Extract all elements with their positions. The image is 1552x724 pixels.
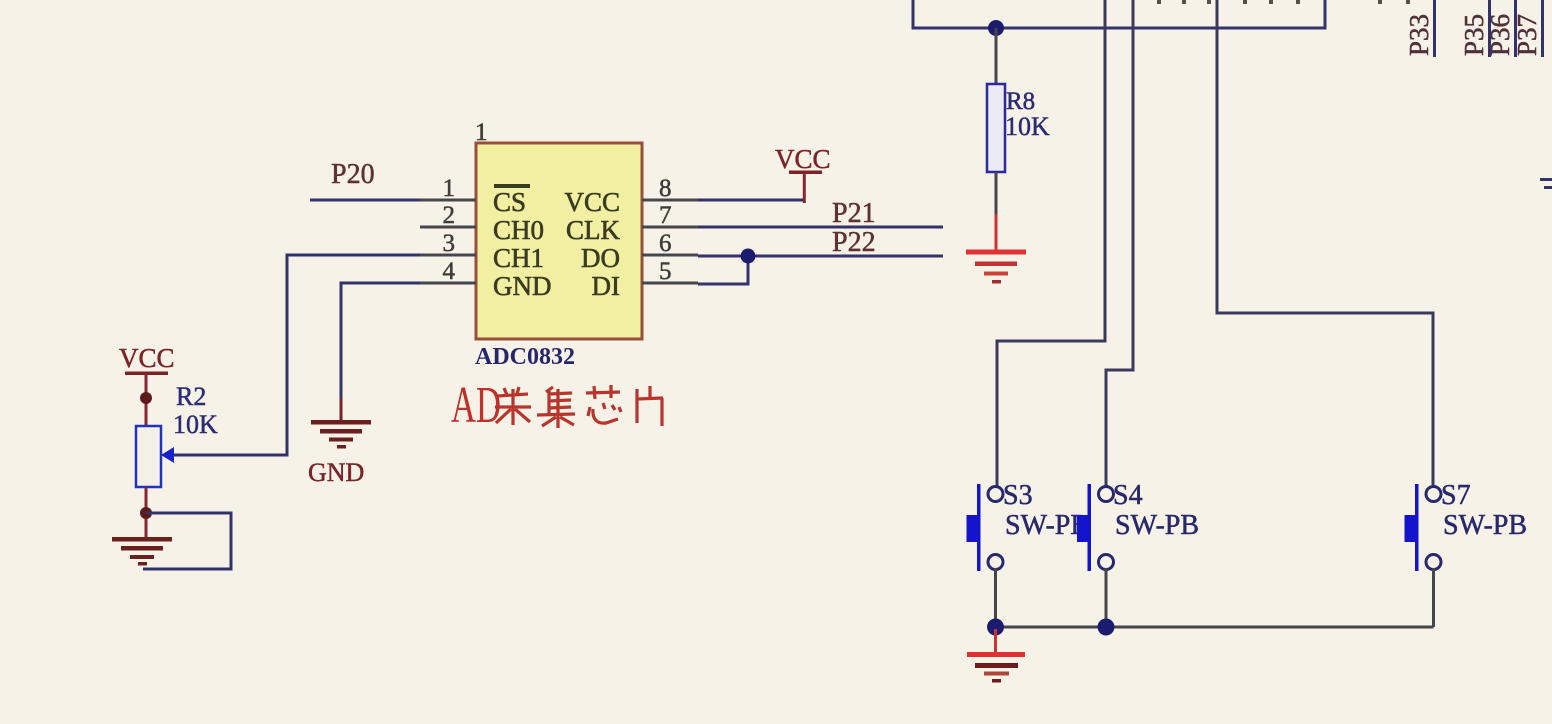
wire top bus horizontal [912, 27, 1327, 30]
pin 3 stub CH1 [420, 230, 476, 257]
svg-text:P22: P22 [832, 227, 876, 258]
junction R2 bottom [140, 507, 152, 519]
ground GND (chip pin 4) [308, 398, 371, 487]
wire bottom bus [996, 626, 1434, 629]
wire S4 net vertical from top [1106, 0, 1133, 490]
svg-text:1: 1 [443, 175, 456, 202]
svg-text:P20: P20 [331, 159, 375, 190]
wire net CH1 to potentiometer wiper [170, 255, 420, 455]
pin 7 stub CLK [642, 202, 698, 229]
svg-text:S7: S7 [1441, 480, 1471, 511]
switch S7 [1405, 480, 1528, 571]
wire net P20 to pin 1 [310, 159, 420, 202]
junction on DO/DI net [741, 249, 756, 264]
svg-text:SW-PB: SW-PB [1443, 510, 1527, 541]
svg-text:6: 6 [659, 230, 672, 257]
wire pin 5 up to DO net [698, 256, 748, 284]
ground below bottom bus (red) [967, 629, 1025, 683]
svg-text:CH0: CH0 [493, 215, 544, 245]
ground below R2 [112, 537, 172, 566]
svg-text:CS: CS [493, 187, 526, 217]
svg-text:R2: R2 [176, 382, 206, 411]
wire S7 net from top [1217, 0, 1433, 490]
op-amp U1 ADC0832 chip body [476, 143, 642, 339]
svg-text:3: 3 [443, 230, 456, 257]
svg-text:SW-PB: SW-PB [1115, 510, 1199, 541]
pin 5 stub DI [642, 258, 698, 285]
node P37 pin stub [1512, 0, 1544, 57]
svg-text:GND: GND [493, 271, 552, 301]
wire top bus vertical left [912, 0, 915, 29]
wire R8 top lead [995, 28, 998, 84]
caption AD acquisition chip (red) [451, 377, 501, 434]
svg-text:VCC: VCC [564, 187, 620, 217]
pin 2 stub CH0 [420, 202, 476, 229]
svg-text:1: 1 [475, 119, 488, 146]
switch S3 [967, 480, 1090, 571]
svg-text:P21: P21 [832, 198, 876, 229]
hanzi ji (sketch) [537, 387, 575, 428]
svg-text:AD: AD [451, 377, 501, 434]
svg-text:P36: P36 [1485, 14, 1515, 56]
wire net P22 from pin 6 [698, 227, 943, 258]
wire loop from R2 bottom [143, 513, 231, 569]
right edge cut mark [1540, 178, 1552, 189]
svg-text:CH1: CH1 [493, 243, 544, 273]
pin 1 stub CS [420, 175, 476, 202]
svg-text:S3: S3 [1003, 480, 1033, 511]
node P35 pin stub [1459, 0, 1491, 57]
pin 6 stub DO [642, 230, 698, 257]
svg-text:5: 5 [659, 258, 672, 285]
wire S3 bottom lead [994, 568, 997, 627]
junction bottom bus S4 [1098, 619, 1115, 636]
junction top bus to R8 [988, 20, 1004, 36]
wire S3 net vertical from top [997, 0, 1105, 490]
wire R2 bottom lead [145, 487, 148, 537]
wire net P21 from pin 7 [698, 198, 943, 229]
wire top bus vertical right [1324, 0, 1327, 29]
power VCC (above R2) [119, 343, 175, 426]
svg-text:VCC: VCC [775, 144, 831, 174]
svg-text:4: 4 [443, 258, 456, 285]
svg-text:10K: 10K [1005, 112, 1050, 141]
svg-text:7: 7 [659, 202, 672, 229]
wire R8 bottom lead [995, 172, 998, 252]
svg-text:DI: DI [592, 271, 621, 301]
wire pin 4 to ground [341, 283, 420, 400]
svg-text:S4: S4 [1113, 480, 1143, 511]
power VCC (right of chip) [775, 144, 831, 203]
node P33 pin stub [1404, 0, 1436, 57]
pin 4 stub GND [420, 258, 476, 285]
chip name label ADC0832 [475, 344, 575, 370]
svg-text:GND: GND [308, 458, 364, 487]
svg-text:10K: 10K [173, 410, 218, 439]
svg-text:SW-PB: SW-PB [1005, 510, 1089, 541]
junction bottom bus S3 [987, 619, 1004, 636]
wire pin 8 to VCC [698, 199, 805, 202]
svg-text:8: 8 [659, 175, 672, 202]
wire S7 bottom lead [1432, 568, 1435, 627]
junction VCC-R2 [140, 392, 152, 404]
svg-text:R8: R8 [1006, 88, 1035, 115]
switch S4 [1077, 480, 1199, 571]
pin 1 designator above chip [475, 119, 488, 146]
svg-text:DO: DO [581, 243, 620, 273]
svg-text:CLK: CLK [566, 215, 621, 245]
ground below R8 (red) [966, 250, 1026, 284]
svg-text:2: 2 [443, 202, 456, 229]
wire S4 bottom lead [1105, 568, 1108, 627]
svg-text:VCC: VCC [119, 343, 175, 373]
svg-text:ADC0832: ADC0832 [475, 344, 575, 370]
top edge pin tick marks [1157, 0, 1410, 4]
pin 8 stub VCC [642, 175, 698, 202]
svg-text:P37: P37 [1512, 14, 1542, 56]
node P36 pin stub [1485, 0, 1517, 57]
hanzi xin (sketch) [586, 385, 621, 423]
svg-text:P33: P33 [1404, 14, 1434, 56]
resistor R8 [987, 84, 1050, 172]
resistor R2 potentiometer body [136, 382, 218, 487]
hanzi pian (sketch) [637, 386, 663, 426]
hanzi cai (sketch) [495, 387, 531, 425]
